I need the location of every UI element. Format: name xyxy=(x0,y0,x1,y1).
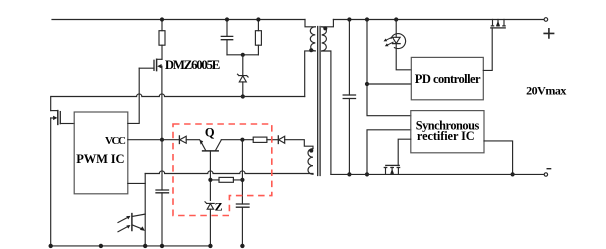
wire PD branch xyxy=(367,83,411,85)
capacitor C2 xyxy=(156,190,169,246)
transformer T1 secondary top lead xyxy=(322,20,334,27)
resistor R2 snubber xyxy=(257,20,259,55)
transformer T1 secondary phase dot xyxy=(323,26,327,30)
PWM IC box xyxy=(74,112,128,194)
transformer T1 primary top lead xyxy=(305,20,315,27)
transformer T1 aux phase dot xyxy=(309,149,313,153)
wire cap C2 top lead xyxy=(161,140,163,190)
node R4 left xyxy=(208,178,212,182)
opto LED U2a xyxy=(384,20,412,70)
wire snubber bottom connector xyxy=(227,54,258,56)
wire bottom primary rail xyxy=(51,245,211,247)
label minus sign xyxy=(547,168,550,170)
node sec rail feed xyxy=(365,17,369,21)
node R2 top xyxy=(256,17,260,21)
wire PWM feedback pin xyxy=(128,182,145,184)
wire sync gate xyxy=(398,139,411,165)
wire collector node vertical xyxy=(241,140,243,204)
node VCC junction xyxy=(160,138,164,142)
svg-text:20Vmax: 20Vmax xyxy=(526,84,566,98)
resistor R1 xyxy=(161,20,163,60)
node R4 right xyxy=(240,178,244,182)
svg-text:DMZ6005E: DMZ6005E xyxy=(165,58,220,72)
wire bottom secondary rail xyxy=(331,173,544,175)
PD controller box xyxy=(411,57,483,99)
wire VCC pin xyxy=(128,139,162,141)
transformer T1 primary phase dot xyxy=(309,48,313,52)
mosfet Q5 sync rectifier xyxy=(384,165,399,174)
wire feed to PD and sync IC xyxy=(367,20,411,116)
wire sync pin2 to rail xyxy=(367,130,411,175)
svg-text:Q: Q xyxy=(205,126,215,140)
transformer T1 aux winding lead xyxy=(285,140,313,149)
node rail right end xyxy=(208,244,212,248)
wire left feedback vertical xyxy=(144,174,146,246)
wire gate drive PWM to DMZ xyxy=(128,68,139,123)
node rail x145 xyxy=(143,244,147,248)
red dashed highlight box xyxy=(173,124,272,216)
transformer T1 secondary winding xyxy=(322,27,327,51)
diode D4 xyxy=(272,136,284,144)
svg-text:VCC: VCC xyxy=(105,135,126,147)
transformer T1 secondary bottom lead xyxy=(322,51,331,174)
wire mid rail with hops xyxy=(145,171,313,174)
wire primary return rail with hops xyxy=(51,94,305,97)
label plus sign xyxy=(544,29,553,38)
capacitor C4 xyxy=(236,204,249,246)
transistor Q xyxy=(199,140,221,201)
node rail x101 xyxy=(99,244,103,248)
capacitor C1 snubber xyxy=(221,20,232,55)
mosfet DMZ6005E xyxy=(139,59,162,139)
transformer T1 primary bottom lead xyxy=(305,51,316,97)
svg-text:rectifier IC: rectifier IC xyxy=(417,129,475,143)
wire top secondary rail xyxy=(333,19,544,21)
svg-text:PWM IC: PWM IC xyxy=(76,152,124,166)
capacitor C5 secondary xyxy=(343,20,355,175)
resistor R3 xyxy=(253,137,267,142)
wire VCC node to diode xyxy=(162,139,179,141)
phototransistor U2b xyxy=(118,214,145,232)
node sec rail cap xyxy=(347,17,351,21)
node sync return xyxy=(365,172,369,176)
node C1 top xyxy=(225,17,229,21)
node C4 bottom end xyxy=(240,244,244,248)
svg-text:Z: Z xyxy=(215,199,223,213)
transformer T1 core xyxy=(318,27,320,176)
node collector xyxy=(240,138,244,142)
wire PD output to load FET gate xyxy=(483,28,492,71)
resistor R4 xyxy=(210,179,242,181)
transformer T1 aux winding xyxy=(308,149,313,175)
svg-text:PD controller: PD controller xyxy=(415,72,481,86)
node snubber zener tap xyxy=(241,53,245,57)
mosfet Q4 load switch xyxy=(491,20,505,28)
output plus terminal xyxy=(544,18,548,22)
wire Q collector xyxy=(221,139,253,141)
mosfet Q3 startup left xyxy=(51,97,74,246)
wire top primary rail xyxy=(52,19,305,21)
node C5 bottom xyxy=(347,172,351,176)
zener D2 snubber xyxy=(238,55,249,97)
diode D3 xyxy=(179,136,199,144)
node rail x162 xyxy=(160,244,164,248)
synchronous rectifier IC box xyxy=(411,111,484,153)
wire sync IC right to rail xyxy=(484,141,513,175)
node PD branch xyxy=(365,82,369,86)
node zener to return rail xyxy=(241,94,245,98)
transformer T1 primary winding xyxy=(310,27,315,51)
node R1 top xyxy=(160,17,164,21)
node rail left corner xyxy=(49,244,53,248)
zener Z xyxy=(205,202,214,246)
output minus terminal xyxy=(544,173,547,176)
node sec rail led xyxy=(394,17,398,21)
node sync right xyxy=(510,172,514,176)
